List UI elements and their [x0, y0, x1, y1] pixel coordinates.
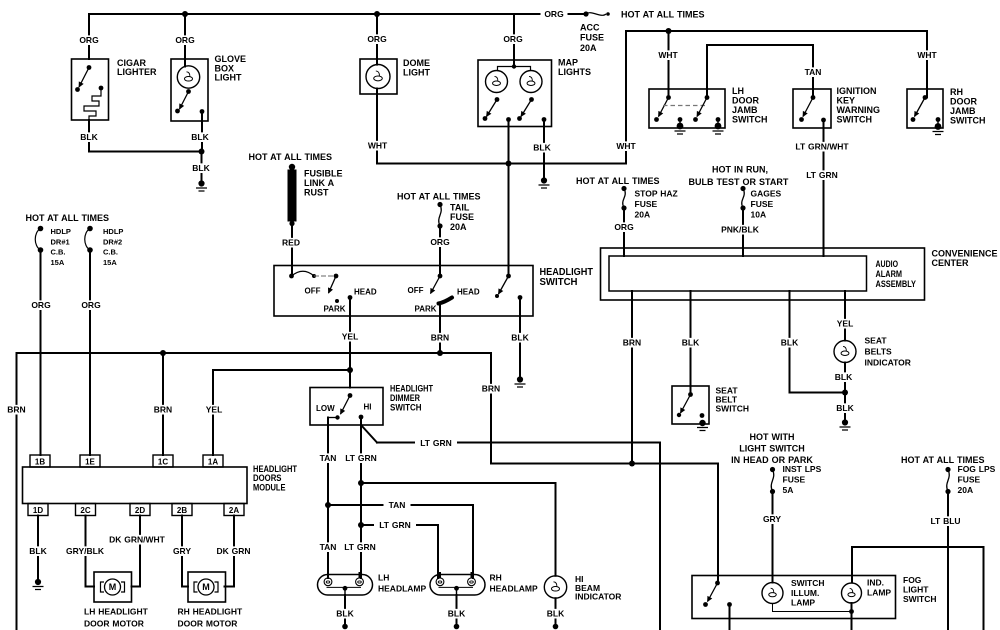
- fog light switch box: [692, 576, 896, 619]
- map switch pin right: [529, 97, 534, 102]
- cigar lighter heating element: [84, 88, 101, 120]
- cigar lighter switch lever: [79, 68, 89, 88]
- wire to ground: [717, 120, 719, 127]
- junction glove-box tap: [182, 11, 188, 17]
- wire BRN to module pin 1C: [162, 353, 164, 455]
- map lights output pin BLK: [542, 117, 547, 122]
- hs left pivot: [334, 274, 339, 279]
- indicator lamp bulb: [842, 583, 862, 603]
- fuse TAIL FUSE 20A: [437, 202, 442, 207]
- wire TAN to RH headlamp: [472, 505, 474, 578]
- svg-text:LOW: LOW: [316, 404, 335, 413]
- ignition switch contact: [799, 117, 804, 122]
- ignition switch output pin: [821, 118, 826, 123]
- svg-text:DK GRN/WHT: DK GRN/WHT: [109, 535, 166, 545]
- label BRN: [478, 384, 504, 394]
- svg-text:1B: 1B: [35, 457, 45, 466]
- wire BLK headlight switch to ground: [519, 298, 521, 378]
- svg-text:FUSE: FUSE: [783, 475, 806, 485]
- wire WHT horizontal: [377, 163, 626, 165]
- svg-text:FUSE: FUSE: [635, 199, 658, 209]
- junction dome-light tap: [374, 11, 380, 17]
- label BLK: [530, 143, 554, 153]
- wire BRN from headlight switch: [439, 304, 441, 354]
- svg-text:FOG: FOG: [903, 575, 922, 585]
- label BLK: [333, 609, 357, 619]
- wire WHT from dome light: [376, 89, 378, 164]
- wire GRY/BLK 2C to LH motor: [86, 516, 95, 587]
- terminal dot: [454, 624, 460, 630]
- svg-text:BLK: BLK: [29, 546, 47, 556]
- svg-text:LH: LH: [732, 86, 744, 96]
- label GRY: [760, 514, 785, 524]
- label DK GRN: [213, 546, 255, 556]
- wire YEL to module pin 1A: [213, 370, 350, 455]
- junction BLK: [199, 149, 205, 155]
- label BLK: [26, 546, 50, 556]
- svg-text:FUSIBLE: FUSIBLE: [304, 169, 343, 179]
- label ORG: [78, 300, 105, 310]
- svg-text:1C: 1C: [158, 457, 168, 466]
- svg-text:DK GRN: DK GRN: [216, 546, 250, 556]
- motor LH headlight door motor: [94, 572, 132, 602]
- terminal dot: [553, 624, 559, 630]
- svg-text:DR#2: DR#2: [103, 237, 122, 246]
- svg-text:C.B.: C.B.: [103, 248, 118, 257]
- label BLK: [778, 338, 802, 348]
- fog switch pin: [715, 581, 720, 586]
- label BRN: [150, 405, 176, 415]
- label LT BLU: [927, 516, 965, 526]
- svg-text:2D: 2D: [135, 506, 145, 515]
- svg-text:SWITCH: SWITCH: [791, 578, 825, 588]
- LH headlamp: [318, 575, 373, 596]
- wire WHT to LH door jamb switch: [668, 31, 670, 98]
- glove box switch contact: [175, 109, 180, 114]
- wire ORG to dome light: [376, 14, 378, 65]
- label BLK: [833, 403, 857, 413]
- wire ORG breaker2 to module 1E: [89, 250, 91, 455]
- wire BLK from cigar lighter: [88, 120, 90, 152]
- svg-text:SWITCH: SWITCH: [950, 116, 986, 126]
- label WHT: [654, 50, 682, 60]
- cigar lighter element pin: [99, 86, 104, 91]
- svg-text:LH: LH: [378, 573, 389, 583]
- dimmer lever: [341, 396, 351, 415]
- svg-text:PARK: PARK: [415, 305, 437, 314]
- svg-text:DOOR: DOOR: [732, 96, 760, 106]
- seat belt switch lever: [681, 395, 691, 414]
- wire WHT map lights to headlight switch: [508, 120, 510, 277]
- svg-text:LIGHTS: LIGHTS: [558, 67, 591, 77]
- wire LT GRN horizontal to RH headlamp: [361, 524, 438, 526]
- wire LT GRN diagonal from dimmer: [361, 425, 377, 443]
- svg-text:LIGHT: LIGHT: [903, 585, 929, 595]
- dome light box: [360, 59, 397, 94]
- map lights internal feed: [498, 67, 531, 71]
- svg-text:BRN: BRN: [623, 338, 641, 348]
- svg-text:AUDIO: AUDIO: [876, 259, 899, 269]
- ignition key warning switch box: [793, 89, 831, 128]
- wire LT GRN ignition to convenience center: [823, 120, 825, 256]
- svg-text:BLK: BLK: [511, 333, 529, 343]
- headlight doors module box: [23, 467, 248, 504]
- label ORG: [76, 35, 103, 45]
- wire LT GRN down to bottom: [659, 443, 661, 630]
- hs right blk pin: [518, 295, 523, 300]
- svg-text:YEL: YEL: [206, 405, 223, 415]
- svg-text:FUSE: FUSE: [580, 33, 604, 43]
- map switch contact right: [517, 116, 522, 121]
- dimmer LOW contact: [335, 415, 339, 419]
- wire BRN right down and across: [491, 353, 718, 464]
- glove box switch lever: [180, 92, 189, 110]
- svg-text:SWITCH: SWITCH: [903, 594, 937, 604]
- svg-text:SWITCH: SWITCH: [540, 277, 578, 288]
- wire BLK module 1D to ground: [37, 516, 39, 580]
- glove box light bulb: [177, 66, 199, 88]
- wire BRN far left down: [16, 353, 18, 630]
- terminal dot: [342, 624, 348, 630]
- svg-text:ORG: ORG: [367, 34, 387, 44]
- wire BLK horizontal: [89, 151, 202, 153]
- wire fog switch output down: [729, 605, 731, 630]
- svg-text:HOT AT ALL TIMES: HOT AT ALL TIMES: [249, 152, 333, 162]
- svg-text:INDICATOR: INDICATOR: [865, 358, 911, 368]
- label BLK: [445, 609, 469, 619]
- hs left arc: [292, 271, 315, 276]
- map lights output pin WHT: [506, 117, 511, 122]
- fog switch contact: [703, 602, 708, 607]
- svg-text:LIGHTER: LIGHTER: [117, 67, 157, 77]
- RH jamb ground lug: [935, 123, 942, 130]
- junction LT GRN: [358, 480, 364, 486]
- wire WHT to RH door jamb switch: [926, 31, 928, 98]
- svg-text:MODULE: MODULE: [253, 482, 286, 492]
- svg-text:OFF: OFF: [305, 287, 321, 296]
- svg-text:HOT AT ALL TIMES: HOT AT ALL TIMES: [26, 213, 110, 223]
- map lights box: [478, 60, 552, 127]
- svg-text:FUSE: FUSE: [958, 475, 981, 485]
- junction BRN: [437, 350, 443, 356]
- svg-text:10A: 10A: [751, 210, 767, 220]
- cigar lighter contact: [75, 87, 80, 92]
- label TAN: [801, 67, 826, 77]
- label PNK/BLK: [717, 225, 763, 235]
- label BLK: [77, 132, 101, 142]
- wire to ground: [937, 120, 939, 127]
- label ORG: [172, 35, 199, 45]
- hs mid lever (OFF): [431, 276, 441, 294]
- svg-text:ASSEMBLY: ASSEMBLY: [876, 279, 917, 289]
- wire LT GRN long horizontal: [377, 442, 660, 444]
- module pin 2C: [76, 504, 96, 516]
- wire LT GRN down to RH headlamp: [437, 525, 439, 578]
- svg-text:CONVENIENCE: CONVENIENCE: [932, 249, 998, 259]
- dimmer pin: [348, 393, 353, 398]
- svg-text:PARK: PARK: [324, 305, 346, 314]
- svg-text:DOOR: DOOR: [950, 97, 978, 107]
- label ORG: [611, 222, 638, 232]
- motor RH headlight door motor: [188, 572, 226, 602]
- label ORG: [500, 34, 527, 44]
- wire BLK from glove box light: [201, 112, 203, 152]
- svg-text:BLK: BLK: [547, 609, 565, 619]
- svg-text:HDLP: HDLP: [103, 227, 123, 236]
- RH jamb ground pin: [936, 117, 941, 122]
- junction YEL: [347, 367, 353, 373]
- svg-text:INDICATOR: INDICATOR: [575, 592, 621, 602]
- svg-text:SWITCH: SWITCH: [837, 115, 873, 125]
- svg-text:FUSE: FUSE: [751, 199, 774, 209]
- ignition switch pin: [811, 95, 816, 100]
- svg-text:TAN: TAN: [320, 542, 337, 552]
- wire DK GRN 2A to RH motor: [225, 516, 235, 587]
- label LT GRN: [340, 542, 380, 552]
- module pin 1B: [30, 455, 50, 467]
- hs left pin (RED): [289, 274, 294, 279]
- RH jamb contact: [911, 117, 916, 122]
- svg-text:HOT AT ALL TIMES: HOT AT ALL TIMES: [576, 176, 660, 186]
- map switch lever right: [521, 100, 532, 117]
- wire YEL to seat belts indicator: [844, 291, 846, 341]
- switch illumination lamp bulb: [762, 583, 783, 604]
- seat belt switch ground pin: [699, 420, 705, 426]
- svg-text:ORG: ORG: [544, 9, 564, 19]
- svg-text:SWITCH: SWITCH: [732, 115, 768, 125]
- wire lamp commons (thin): [773, 604, 852, 612]
- svg-text:SWITCH: SWITCH: [390, 403, 422, 413]
- svg-text:BLK: BLK: [835, 372, 853, 382]
- LH jamb contact right: [693, 117, 698, 122]
- junction lamp common: [849, 609, 854, 614]
- cigar lighter pin: [87, 65, 92, 70]
- ignition switch lever: [803, 98, 813, 117]
- svg-text:LT BLU: LT BLU: [930, 516, 960, 526]
- svg-text:RUST: RUST: [304, 188, 329, 198]
- label YEL: [833, 319, 857, 329]
- map light bulb right: [520, 71, 542, 93]
- wire BRN to fog light switch: [717, 464, 719, 584]
- convenience center box: [601, 248, 925, 300]
- svg-text:WHT: WHT: [917, 50, 937, 60]
- headlight dimmer switch box: [310, 388, 383, 426]
- label BLK: [832, 372, 856, 382]
- label BRN: [4, 405, 30, 415]
- hs right pin (WHT): [506, 274, 511, 279]
- svg-text:M: M: [109, 582, 117, 592]
- svg-text:OFF: OFF: [408, 286, 424, 295]
- label LT GRN/WHT: [791, 142, 853, 152]
- svg-text:LT GRN: LT GRN: [345, 453, 377, 463]
- seat belt switch pin: [688, 392, 693, 397]
- label TAN inline: [384, 500, 411, 510]
- svg-text:ORG: ORG: [430, 237, 450, 247]
- wire GRY 2B to RH motor: [182, 516, 188, 587]
- cigar lighter box: [72, 59, 109, 120]
- svg-text:1A: 1A: [208, 457, 218, 466]
- LH jamb ground pin 2: [716, 117, 721, 122]
- svg-text:RED: RED: [282, 238, 300, 248]
- RH headlamp: [430, 575, 485, 596]
- LH jamb dashed link: [663, 105, 705, 107]
- svg-text:GAGES: GAGES: [751, 189, 782, 199]
- svg-text:BLK: BLK: [191, 132, 209, 142]
- fusible link A: [289, 164, 295, 170]
- svg-text:LH HEADLIGHT: LH HEADLIGHT: [84, 607, 149, 617]
- label BLK: [188, 132, 212, 142]
- ground (seat belt switch): [697, 428, 708, 431]
- hs right lever: [499, 276, 509, 294]
- svg-text:RH HEADLIGHT: RH HEADLIGHT: [178, 607, 244, 617]
- wire ORG breaker1 to module 1B: [40, 250, 42, 455]
- svg-text:TAN: TAN: [320, 453, 337, 463]
- wire fog lamp feed horizontal: [852, 546, 984, 548]
- hs right contact: [495, 294, 499, 298]
- label DK GRN/WHT: [105, 535, 169, 545]
- svg-text:HOT AT ALL TIMES: HOT AT ALL TIMES: [397, 192, 481, 202]
- svg-text:HEADLAMP: HEADLAMP: [378, 584, 426, 594]
- wire to ground: [679, 120, 681, 127]
- wire TAN jamb to ignition switch: [707, 45, 813, 98]
- junction WHT: [506, 161, 512, 167]
- fuse STOP HAZ FUSE 20A: [621, 186, 626, 191]
- wire BLK from convenience center: [790, 291, 846, 393]
- svg-text:LINK A: LINK A: [304, 178, 335, 188]
- wire ORG to headlight switch: [439, 226, 441, 276]
- wire LT BLU down: [947, 492, 949, 630]
- wire YEL headlight switch to dimmer: [349, 298, 351, 388]
- LH jamb lever right: [697, 98, 707, 117]
- RH door jamb switch box: [907, 89, 943, 128]
- svg-text:WHT: WHT: [658, 50, 678, 60]
- fuse ACC FUSE 20A (horizontal): [583, 11, 588, 16]
- wire LT GRN down to hi beam indicator: [555, 483, 557, 576]
- svg-text:WHT: WHT: [368, 141, 388, 151]
- label YEL: [202, 405, 226, 415]
- svg-text:ORG: ORG: [31, 300, 51, 310]
- label TAN: [316, 542, 341, 552]
- wire TAN from dimmer: [327, 418, 329, 506]
- wire ORG to map lights: [513, 14, 515, 67]
- svg-text:ALARM: ALARM: [876, 269, 903, 279]
- svg-text:HI: HI: [364, 403, 372, 412]
- label ORG: [427, 237, 454, 247]
- svg-text:BRN: BRN: [154, 405, 172, 415]
- svg-text:BRN: BRN: [7, 405, 25, 415]
- svg-text:LAMP: LAMP: [867, 588, 891, 598]
- LH jamb pin left: [666, 95, 671, 100]
- LH jamb ground pin 1: [678, 117, 683, 122]
- svg-text:BULB TEST OR START: BULB TEST OR START: [689, 177, 789, 187]
- svg-text:ORG: ORG: [503, 34, 523, 44]
- LH jamb ground lug 2: [715, 123, 722, 130]
- wire ORG to cigar lighter: [88, 14, 90, 59]
- svg-text:HEAD: HEAD: [457, 288, 480, 297]
- module pin 1A: [203, 455, 223, 467]
- svg-text:5A: 5A: [783, 485, 794, 495]
- map lights internal junction: [512, 64, 516, 68]
- svg-text:ORG: ORG: [81, 300, 101, 310]
- hs left arc contact: [312, 274, 316, 278]
- label WHT: [612, 141, 640, 151]
- label WHT: [913, 50, 941, 60]
- svg-text:1E: 1E: [85, 457, 95, 466]
- LH jamb contact left: [654, 117, 659, 122]
- svg-text:FUSE: FUSE: [450, 212, 474, 222]
- wire DK GRN/WHT 2D to LH motor: [132, 516, 141, 587]
- label BRN: [619, 338, 645, 348]
- headlight switch box: [274, 266, 533, 317]
- svg-text:20A: 20A: [450, 222, 467, 232]
- hs left head contact (YEL): [348, 295, 353, 300]
- label RED: [279, 238, 303, 248]
- svg-text:BELTS: BELTS: [865, 347, 893, 357]
- ground (cigar/glove): [198, 180, 204, 186]
- ground (RH jamb): [933, 132, 944, 135]
- label ORG: [28, 300, 55, 310]
- svg-text:ILLUM.: ILLUM.: [791, 588, 819, 598]
- ground (LH jamb 1): [675, 131, 686, 134]
- hs mid pin (ORG): [438, 274, 443, 279]
- svg-text:BLK: BLK: [80, 132, 98, 142]
- svg-text:DIMMER: DIMMER: [390, 393, 420, 403]
- wire fog lamp feed down: [983, 547, 985, 630]
- svg-text:1D: 1D: [33, 506, 43, 515]
- svg-text:LIGHT: LIGHT: [215, 73, 242, 83]
- seat belts indicator bulb: [834, 341, 856, 363]
- ground (seat belts indicator): [842, 419, 848, 425]
- wire TAN horizontal: [328, 504, 473, 506]
- svg-text:BRN: BRN: [431, 333, 449, 343]
- wire BLK seat belts indicator: [844, 363, 846, 421]
- fog switch output pin: [727, 602, 732, 607]
- wire GRY to fog light switch: [772, 492, 774, 583]
- wire BLK to ground: [201, 152, 203, 182]
- junction LT GRN 2: [358, 522, 364, 528]
- dimmer HI contact: [359, 415, 364, 420]
- hs left park contact: [335, 299, 339, 303]
- svg-text:TAIL: TAIL: [450, 203, 470, 213]
- wire PNK/BLK to convenience center: [742, 208, 744, 256]
- wire BLK hi beam indicator: [555, 598, 557, 624]
- svg-text:LIGHT: LIGHT: [403, 67, 430, 77]
- svg-text:BLK: BLK: [336, 609, 354, 619]
- module pin 1D: [28, 504, 48, 516]
- circuit breaker HDLP DR#1 15A: [38, 226, 44, 232]
- seat belt switch box: [672, 386, 709, 424]
- svg-text:PNK/BLK: PNK/BLK: [721, 225, 760, 235]
- svg-text:20A: 20A: [635, 210, 651, 220]
- wire LT GRN to hi beam indicator: [361, 482, 556, 484]
- label LT GRN inline: [374, 520, 416, 530]
- svg-text:YEL: YEL: [837, 319, 854, 329]
- wire WHT bus hot at all times: [626, 31, 927, 164]
- svg-text:BLK: BLK: [682, 338, 700, 348]
- svg-text:BLK: BLK: [192, 163, 210, 173]
- hi beam indicator bulb: [544, 576, 566, 598]
- wire BRN from convenience center: [631, 291, 633, 464]
- label LT GRN: [341, 453, 381, 463]
- label LT GRN inline: [415, 438, 457, 448]
- wire RED to headlight switch: [291, 224, 293, 277]
- module pin 1C: [153, 455, 173, 467]
- svg-text:HEAD: HEAD: [354, 288, 377, 297]
- svg-text:LT GRN/WHT: LT GRN/WHT: [795, 142, 849, 152]
- wire ORG to convenience center: [623, 208, 625, 256]
- LH jamb pin right: [705, 95, 710, 100]
- glove box switch pin: [186, 89, 191, 94]
